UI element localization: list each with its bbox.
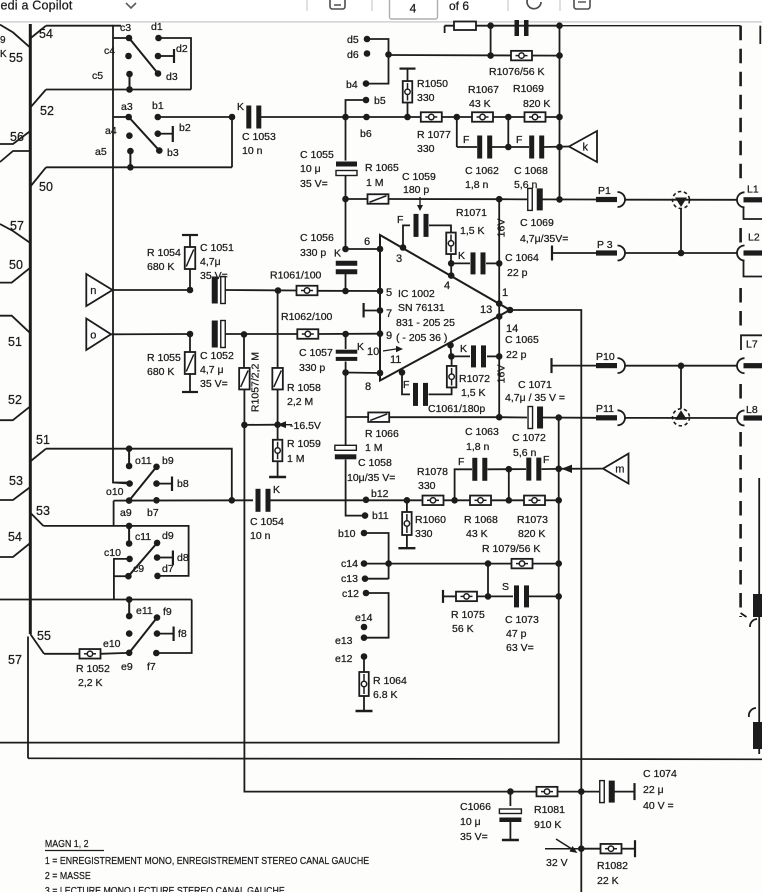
- wire R1068 to R1073: [491, 499, 524, 501]
- svg-text:c9: c9: [133, 563, 144, 575]
- wire P10 to L7: [625, 365, 738, 367]
- svg-text:K: K: [273, 484, 280, 496]
- wire a9 row: [114, 499, 253, 501]
- resistor R1082: [581, 848, 600, 850]
- wire a5 stub: [129, 151, 131, 167]
- svg-text:F: F: [458, 456, 464, 468]
- junction a5-50wire: [127, 164, 134, 171]
- switch contact f7: [153, 650, 160, 657]
- plug P3 wire start: [551, 246, 553, 261]
- ground R1060: [398, 547, 415, 549]
- finger 53 lower: [30, 512, 44, 526]
- svg-text:m: m: [615, 464, 624, 476]
- resistor R1057: [243, 334, 245, 368]
- bracket L1: [744, 208, 762, 220]
- svg-text:4,7μ / 35 V =: 4,7μ / 35 V =: [505, 392, 565, 404]
- switch contact c3: [126, 35, 133, 42]
- wire b10 branch: [364, 533, 389, 579]
- wire c14 row: [364, 563, 511, 565]
- switch contact c5: [126, 71, 133, 78]
- wire b1 to C1053: [158, 116, 232, 118]
- svg-text:F: F: [403, 379, 409, 391]
- switch contact b2 with stop: [155, 130, 162, 137]
- svg-text:R1082: R1082: [597, 860, 628, 872]
- switch blade d9-c9: [128, 543, 157, 576]
- junction R1054 bottom: [187, 287, 194, 294]
- svg-text:4,7μ/35V=: 4,7μ/35V=: [520, 233, 568, 245]
- junction R1079 rail: [555, 560, 562, 567]
- toolbar icon fit page: [574, 0, 590, 9]
- svg-text:330: 330: [417, 92, 435, 104]
- svg-text:b1: b1: [152, 100, 164, 112]
- svg-text:50: 50: [39, 180, 53, 194]
- plug P10 wire start: [550, 358, 552, 373]
- row b12 wire: [266, 499, 423, 501]
- svg-text:330: 330: [417, 143, 435, 155]
- svg-text:C1061/180p: C1061/180p: [428, 403, 485, 415]
- svg-text:680 K: 680 K: [147, 261, 174, 273]
- wire R1073 to rail: [545, 499, 559, 501]
- ground R1059: [269, 476, 286, 478]
- svg-text:8: 8: [365, 381, 371, 393]
- svg-text:330 p: 330 p: [300, 247, 326, 259]
- connector bus line: [29, 24, 32, 634]
- svg-text:C 1062: C 1062: [465, 165, 499, 177]
- wire 52 row: [46, 89, 191, 91]
- wire pin8: [346, 372, 380, 375]
- svg-text:b6: b6: [360, 128, 372, 140]
- switch contact e11: [128, 600, 130, 617]
- junction pin8 wire: [342, 369, 349, 376]
- wire o10 feed: [113, 483, 130, 484]
- svg-text:10μ/35 V=: 10μ/35 V=: [347, 472, 395, 484]
- resistor R1060: [406, 500, 408, 512]
- svg-text:L8: L8: [746, 404, 758, 416]
- svg-text:b8: b8: [177, 478, 189, 490]
- junction R1067 right: [505, 114, 512, 121]
- svg-text:R 1059: R 1059: [287, 438, 321, 450]
- svg-text:330: 330: [415, 528, 433, 540]
- svg-text:o: o: [90, 329, 96, 341]
- capacitor C1066: [509, 792, 511, 806]
- resistor R1061: [297, 286, 318, 296]
- legend MAGN: [45, 838, 89, 850]
- contact c13: [362, 575, 369, 582]
- junction C1073 rail: [555, 593, 562, 600]
- svg-text:R 1058: R 1058: [287, 382, 321, 394]
- svg-text:o10: o10: [106, 486, 124, 498]
- svg-text:R 1055: R 1055: [147, 352, 181, 364]
- svg-text:51: 51: [36, 433, 50, 447]
- svg-text:c11: c11: [135, 531, 151, 543]
- svg-text:3 = LECTURE MONO LECTURE: 3 = LECTURE MONO LECTURE STEREO CANAL GA…: [45, 885, 285, 892]
- svg-text:C 1068: C 1068: [514, 165, 548, 177]
- finger 52: [31, 90, 46, 108]
- capacitor C1059: [403, 225, 410, 247]
- wire C1059 to R1071: [429, 225, 451, 232]
- svg-text:7: 7: [386, 308, 392, 320]
- svg-text:C 1056: C 1056: [300, 232, 334, 244]
- rail 16V center: [498, 199, 500, 417]
- bracket L7: [741, 335, 762, 350]
- finger 57: [0, 224, 30, 243]
- source o: [86, 319, 111, 351]
- capacitor C1071: [528, 407, 533, 429]
- pin 11: [399, 369, 406, 376]
- switch contact c10: [126, 556, 133, 563]
- svg-text:R1078: R1078: [417, 466, 448, 478]
- ground R1064: [356, 710, 373, 712]
- svg-text:R1069: R1069: [513, 83, 544, 95]
- toolbar icon rotate: [527, 0, 541, 9]
- wire R1078 to R1068: [444, 499, 471, 501]
- junction R1076 right: [556, 52, 563, 59]
- svg-text:51: 51: [8, 335, 22, 349]
- svg-text:d3: d3: [166, 71, 178, 83]
- capacitor C1055: [345, 117, 347, 161]
- resistor R1050: [400, 67, 416, 69]
- wire R1081 row: [423, 791, 537, 793]
- contact b11: [362, 512, 369, 519]
- resistor R1076: [511, 51, 532, 61]
- svg-text:R1073: R1073: [517, 514, 548, 526]
- finger 51 lower: [31, 449, 46, 461]
- wire R1076 branch: [490, 26, 492, 56]
- svg-text:R 1066: R 1066: [365, 428, 399, 440]
- switch contact b3: [156, 147, 163, 154]
- svg-text:1 M: 1 M: [366, 177, 384, 189]
- junction C1069 rail16: [556, 196, 563, 203]
- svg-text:R1067: R1067: [468, 84, 499, 96]
- resistor R1073: [524, 496, 545, 506]
- switch contact b5: [363, 97, 370, 104]
- contact e12: [361, 653, 368, 660]
- capacitor top cut: [515, 20, 520, 36]
- op-amp IC1002 SN76131: [380, 235, 510, 381]
- svg-text:f7: f7: [147, 661, 156, 673]
- svg-text:R1072: R1072: [459, 373, 490, 385]
- svg-text:22 p: 22 p: [507, 267, 528, 279]
- switch contact d2 with stop: [155, 53, 162, 60]
- contact e13: [361, 634, 368, 641]
- wire c10-c9 jog: [114, 559, 130, 600]
- junction R1061 left: [275, 287, 282, 294]
- capacitor C1057: [345, 334, 347, 349]
- svg-text:10 μ: 10 μ: [460, 816, 481, 828]
- switch contact b1: [155, 114, 162, 121]
- svg-text:n: n: [90, 285, 96, 297]
- junction P10 tp: [678, 363, 685, 370]
- svg-text:d5: d5: [347, 34, 359, 46]
- pin 7 with stop: [377, 307, 384, 314]
- switch contact d5: [364, 36, 371, 43]
- svg-text:b2: b2: [179, 122, 191, 134]
- switch contact b8 with stop: [153, 480, 160, 487]
- contact e14: [361, 624, 368, 631]
- wire C1051 to R1061: [225, 289, 297, 292]
- wire C1069 to P1: [541, 198, 596, 200]
- svg-text:e11: e11: [136, 605, 153, 617]
- wire k feedback branch: [456, 117, 458, 147]
- right edge head upper: [758, 478, 760, 754]
- svg-text:55: 55: [9, 51, 23, 65]
- junction R1073 rail: [555, 497, 562, 504]
- switch blade a3-b3: [129, 117, 160, 151]
- label 32V with arrow: [545, 848, 578, 850]
- wire a3 stub: [113, 116, 129, 118]
- svg-text:180 p: 180 p: [403, 184, 429, 196]
- wire a9 to 53 jog: [113, 501, 115, 526]
- switch contact a3: [125, 114, 132, 121]
- wire C1063 to C1072: [488, 468, 527, 470]
- svg-text:52: 52: [8, 393, 22, 407]
- svg-text:1 = ENREGISTREMENT MONO, EN: 1 = ENREGISTREMENT MONO, ENREGISTREMENT …: [45, 855, 370, 867]
- svg-text:55: 55: [37, 629, 51, 643]
- resistor R1067: [472, 112, 493, 122]
- toolbar background: [0, 0, 762, 22]
- svg-text:d9: d9: [162, 530, 174, 542]
- svg-text:1,5 K: 1,5 K: [461, 387, 486, 399]
- svg-text:831 - 205 25: 831 - 205 25: [396, 317, 455, 329]
- resistor R1052: [44, 653, 79, 655]
- rail -16.5V bottom: [244, 425, 423, 792]
- junction C1065 rail: [496, 353, 503, 360]
- junction R1069 right: [556, 114, 563, 121]
- svg-text:L2: L2: [748, 232, 760, 244]
- svg-text:C 1058: C 1058: [358, 457, 392, 469]
- svg-text:C 1072: C 1072: [512, 432, 546, 444]
- svg-text:10: 10: [367, 346, 379, 358]
- wire d5-b4 bracket: [366, 39, 389, 84]
- svg-text:f8: f8: [178, 628, 187, 640]
- svg-text:2 = MASSE: 2 = MASSE: [45, 870, 91, 882]
- dashed boundary top: [560, 25, 741, 27]
- junction C1057 top: [342, 331, 349, 338]
- svg-text:C 1054: C 1054: [250, 516, 284, 528]
- svg-text:R 1068: R 1068: [464, 514, 498, 526]
- wire 57 to bottom rail: [27, 637, 29, 759]
- svg-text:10 n: 10 n: [242, 145, 263, 157]
- dashed boundary line: [739, 26, 742, 185]
- svg-text:4,7μ: 4,7μ: [200, 256, 221, 268]
- junction rail P1: [496, 196, 503, 203]
- wire TP2 up: [680, 366, 682, 409]
- svg-text:R 1052: R 1052: [76, 663, 110, 675]
- wire pin6: [346, 248, 381, 250]
- switch pivot a9: [126, 497, 133, 504]
- resistor R1079: [512, 559, 533, 569]
- svg-text:P10: P10: [596, 351, 615, 363]
- svg-text:b12: b12: [371, 488, 389, 500]
- wire TP1 down: [680, 209, 682, 254]
- toolbar separator: [371, 0, 373, 11]
- wire e row top: [0, 599, 192, 601]
- svg-text:P 3: P 3: [597, 239, 613, 251]
- junction mid k row: [505, 144, 512, 151]
- toolbar separator: [306, 0, 308, 11]
- svg-text:22 p: 22 p: [506, 349, 527, 361]
- svg-text:10 μ: 10 μ: [300, 163, 321, 175]
- svg-text:63 V=: 63 V=: [506, 642, 534, 654]
- rail 16V right top: [559, 26, 561, 200]
- junction c5-52wire: [126, 86, 133, 93]
- amplifier m with arrow: [555, 466, 562, 473]
- svg-text:F: F: [397, 214, 403, 226]
- svg-text:o11: o11: [135, 455, 152, 467]
- svg-text:c14: c14: [341, 558, 358, 570]
- wire R1061 to pin5: [318, 290, 381, 292]
- wire C1057 down to R1066 node: [345, 373, 347, 418]
- wire c12 branch: [364, 593, 389, 638]
- svg-text:b3: b3: [167, 147, 179, 159]
- svg-text:a3: a3: [121, 101, 133, 113]
- legend line 3: [45, 885, 285, 892]
- junction b12: [363, 497, 370, 504]
- junction R1075 branch: [485, 560, 492, 567]
- junction 13-rail R1081: [578, 788, 585, 795]
- junction R1067 left: [454, 114, 461, 121]
- switch contact f9: [154, 614, 161, 621]
- svg-text:c4: c4: [104, 45, 115, 57]
- junction F row: [506, 466, 513, 473]
- svg-text:P1: P1: [598, 185, 611, 197]
- wire R1065 to rail: [389, 198, 500, 200]
- wire C1072 to rail: [542, 468, 559, 470]
- svg-text:52: 52: [40, 104, 54, 118]
- svg-text:5: 5: [386, 287, 392, 299]
- svg-text:10 n: 10 n: [250, 530, 271, 542]
- switch contact d3: [155, 70, 162, 77]
- switch contact b9: [153, 464, 160, 471]
- svg-text:57: 57: [8, 653, 22, 667]
- toolbar separator: [507, 0, 509, 11]
- pin 9: [377, 330, 384, 337]
- svg-text:S: S: [502, 581, 509, 593]
- svg-text:40 V =: 40 V =: [643, 800, 674, 812]
- node -16.5V: [241, 422, 248, 429]
- svg-text:k: k: [582, 142, 588, 154]
- junction d6 feed: [385, 51, 392, 58]
- capacitor C1051: [212, 277, 218, 304]
- finger 51: [0, 316, 30, 334]
- junction o11 stub: [126, 445, 133, 452]
- svg-text:4: 4: [444, 280, 450, 292]
- resistor R1069: [525, 112, 546, 122]
- svg-text:5,6 n: 5,6 n: [514, 179, 538, 191]
- svg-text:6.8 K: 6.8 K: [373, 689, 398, 701]
- pin 3: [400, 244, 407, 251]
- legend line 2: [45, 870, 91, 882]
- svg-text:F: F: [463, 134, 469, 146]
- svg-text:R1057/2,2 M: R1057/2,2 M: [250, 352, 262, 412]
- toolbar separator: [559, 0, 561, 11]
- switch contact c4: [125, 53, 132, 60]
- right edge head lower: [749, 708, 756, 717]
- resistor R1075: [442, 590, 444, 603]
- svg-text:K: K: [237, 101, 244, 113]
- svg-text:35 V=: 35 V=: [300, 178, 328, 190]
- resistor R1068: [470, 496, 491, 506]
- svg-text:680 K: 680 K: [147, 366, 174, 378]
- svg-text:R1081: R1081: [534, 804, 565, 816]
- junction R1055 top: [187, 331, 194, 338]
- svg-text:54: 54: [39, 27, 53, 41]
- svg-text:R1076/56 K: R1076/56 K: [489, 66, 544, 78]
- wire C1053 left bracket: [231, 117, 233, 167]
- switch contact d7: [154, 573, 161, 580]
- svg-text:22 μ: 22 μ: [643, 784, 664, 796]
- svg-text:50: 50: [9, 258, 23, 272]
- junction R1057 top: [241, 331, 248, 338]
- svg-text:MAGN 1, 2: MAGN 1, 2: [45, 838, 89, 850]
- svg-text:R 1075: R 1075: [451, 609, 485, 621]
- svg-text:d7: d7: [162, 563, 174, 575]
- pin 13 output: [507, 307, 514, 314]
- svg-text:f9: f9: [163, 606, 172, 618]
- wire R1079 to rail: [533, 563, 559, 565]
- junction S row: [485, 593, 492, 600]
- wire o output: [111, 333, 190, 335]
- svg-text:e12: e12: [335, 653, 353, 665]
- switch contact b7: [153, 497, 160, 504]
- wire rail to C1071: [499, 416, 527, 418]
- svg-text:R 1064: R 1064: [373, 675, 407, 687]
- junction top row left: [487, 22, 494, 29]
- svg-text:K: K: [0, 49, 7, 60]
- svg-text:C 1055: C 1055: [300, 149, 334, 161]
- svg-text:13: 13: [480, 304, 492, 316]
- svg-text:K: K: [458, 250, 465, 262]
- svg-text:C 1053: C 1053: [242, 131, 276, 143]
- svg-text:C 1051: C 1051: [200, 242, 234, 254]
- svg-text:C 1052: C 1052: [200, 350, 234, 362]
- svg-text:-16.5V: -16.5V: [290, 420, 321, 432]
- capacitor C1061: [402, 372, 410, 394]
- svg-text:54: 54: [8, 530, 22, 544]
- svg-text:43 K: 43 K: [466, 528, 488, 540]
- junction C1056 bottom: [342, 288, 349, 295]
- wire P1 to L1: [625, 199, 738, 201]
- wire P3 to L2: [625, 252, 738, 254]
- svg-text:a5: a5: [95, 146, 107, 158]
- junction C1072 branch: [506, 497, 513, 504]
- resistor R1066: [346, 416, 368, 418]
- svg-text:1 M: 1 M: [365, 442, 383, 454]
- resistor R1054: [182, 234, 198, 236]
- svg-text:1 M: 1 M: [287, 453, 305, 465]
- svg-text:e9: e9: [121, 661, 133, 673]
- switch contact e10: [126, 630, 133, 637]
- svg-text:F: F: [543, 454, 549, 466]
- svg-text:C 1057: C 1057: [299, 347, 333, 359]
- svg-text:C 1071: C 1071: [518, 379, 552, 391]
- switch contact b4: [363, 80, 370, 87]
- amplifier k: [569, 131, 597, 162]
- capacitor C1063: [455, 469, 472, 500]
- svg-text:56 K: 56 K: [452, 623, 474, 635]
- svg-text:16V: 16V: [496, 219, 508, 238]
- svg-text:F: F: [516, 134, 522, 146]
- toolbar icon page-view: [330, 0, 345, 9]
- svg-text:5,6 n: 5,6 n: [513, 447, 537, 459]
- resistor R1058: [277, 291, 279, 369]
- resistor R1055: [189, 334, 191, 352]
- switch contact c11: [128, 526, 130, 544]
- junction C1053 input: [229, 114, 236, 121]
- svg-text:9: 9: [386, 330, 392, 342]
- svg-text:e14: e14: [355, 612, 373, 624]
- switch contact o10: [126, 480, 133, 487]
